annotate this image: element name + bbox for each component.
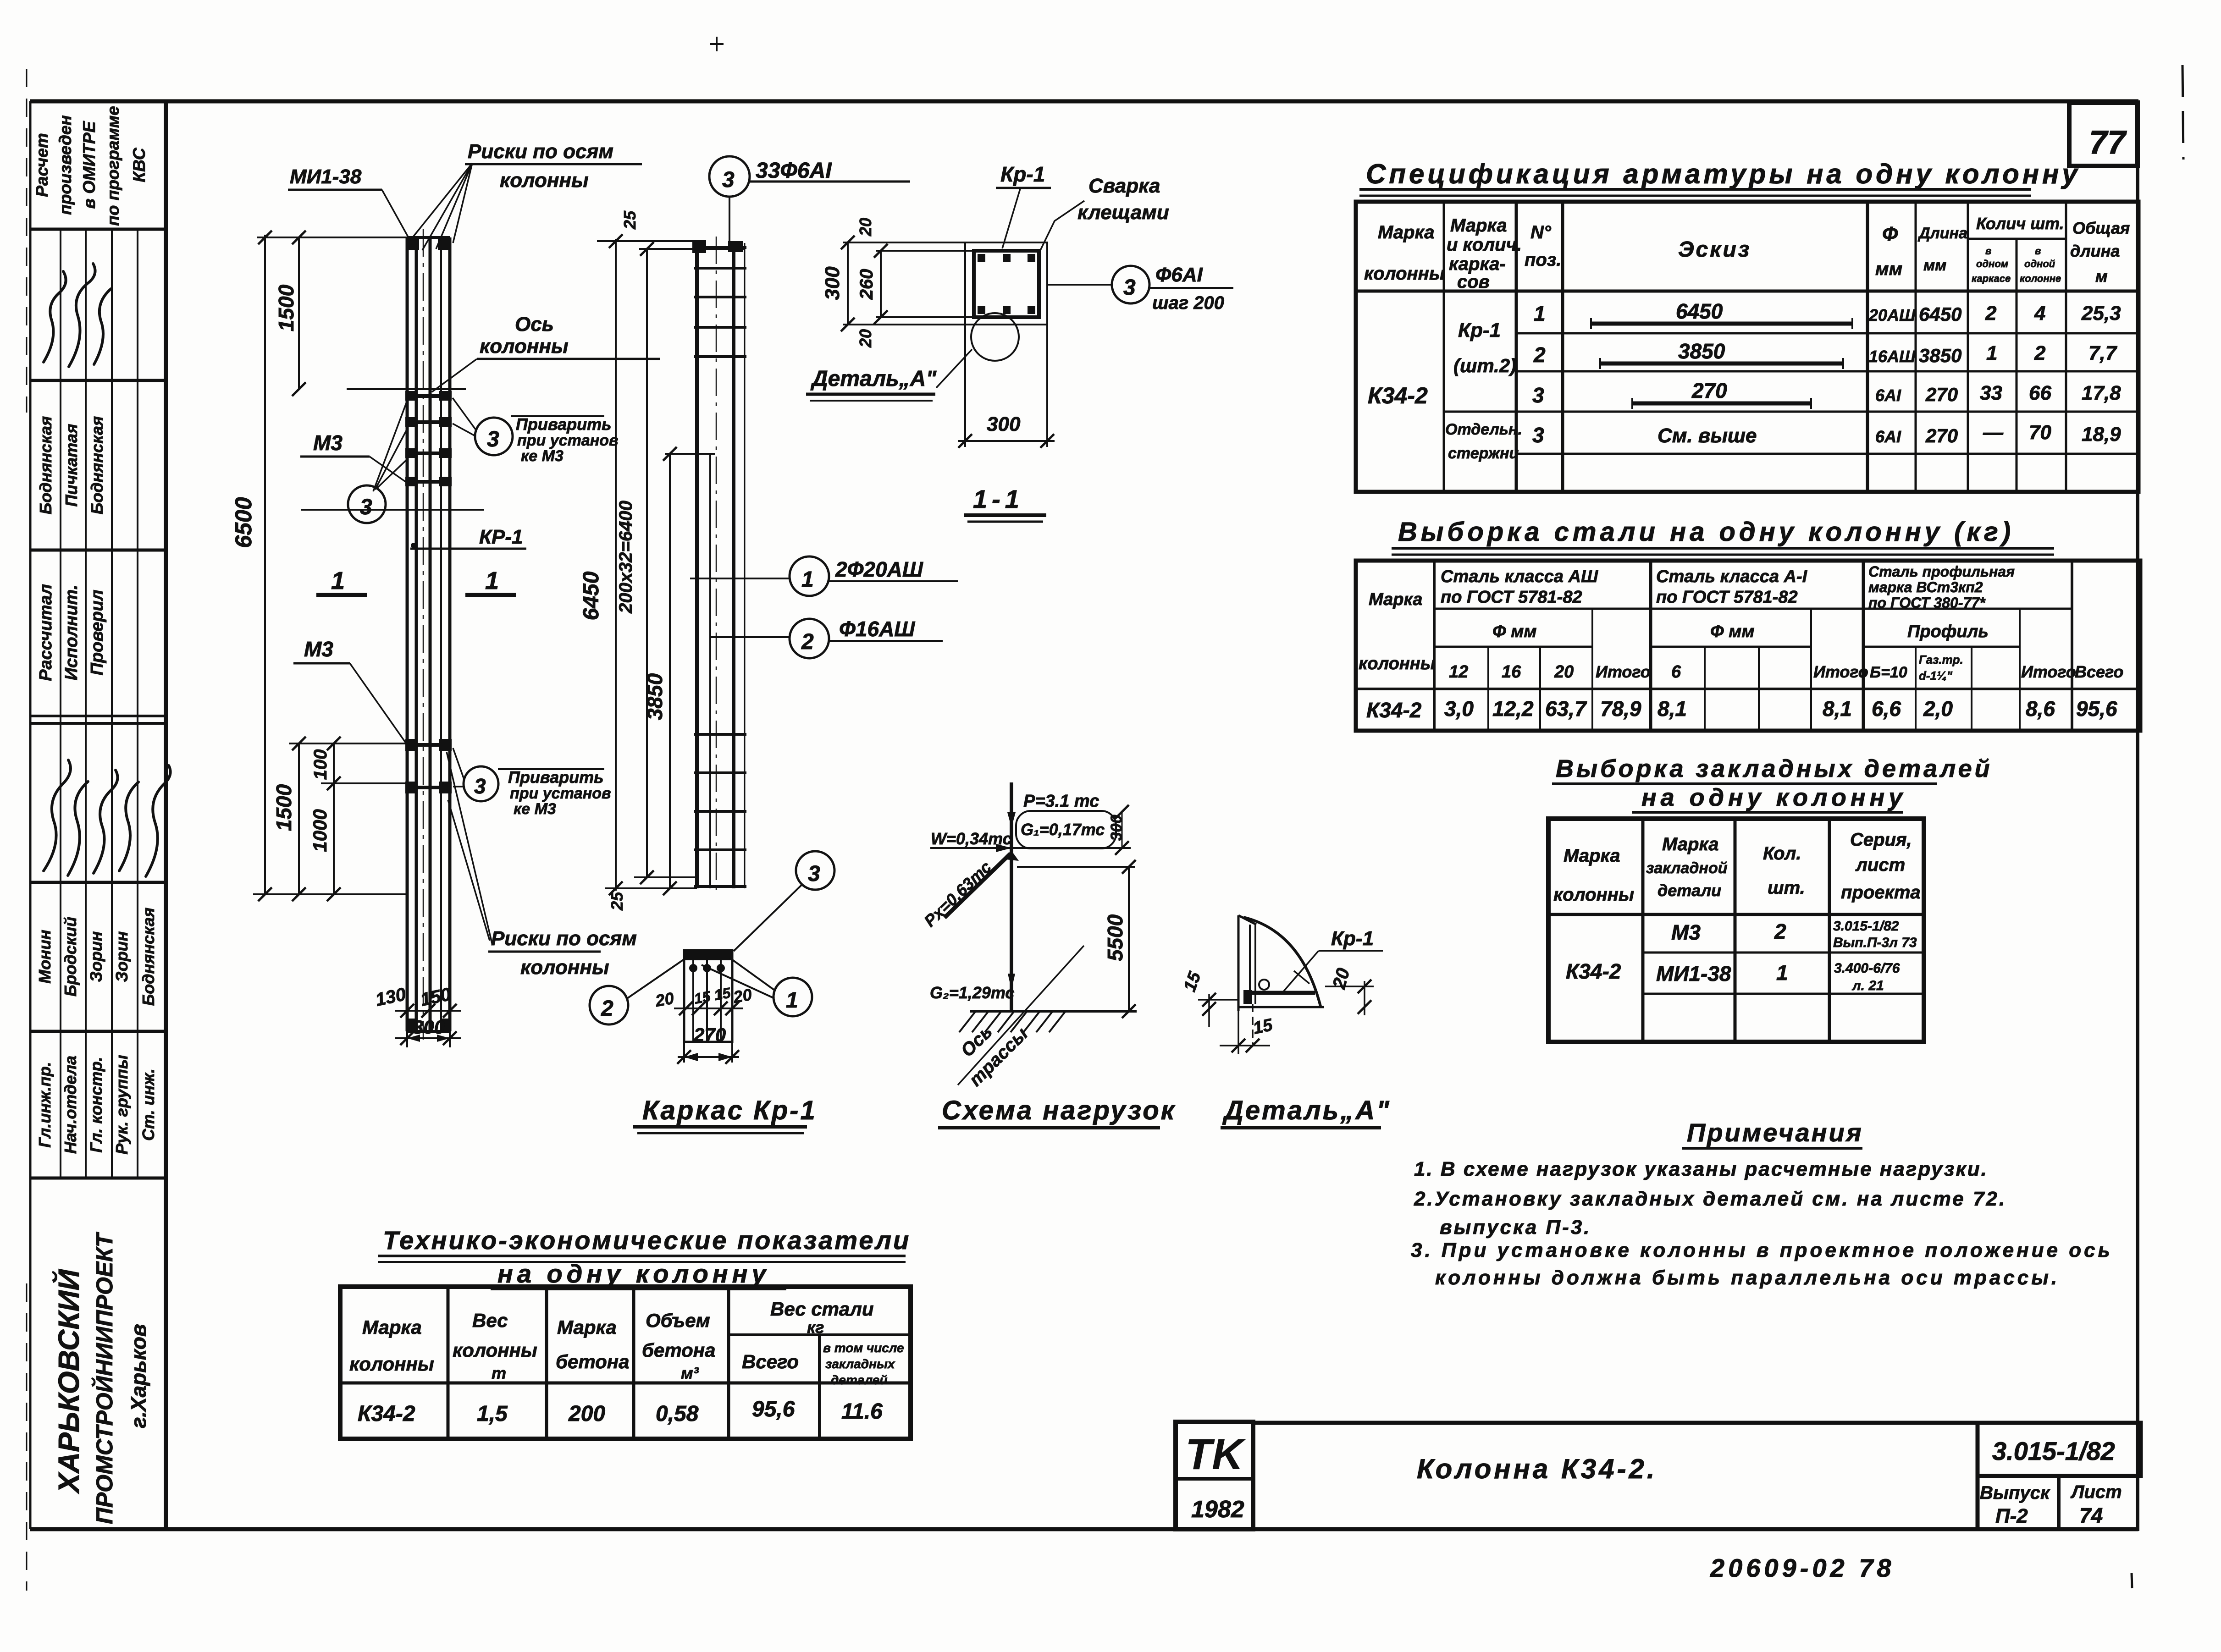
svg-text:33: 33 xyxy=(1980,382,2002,404)
svg-text:1: 1 xyxy=(1534,302,1546,325)
svg-text:270: 270 xyxy=(1925,384,1958,405)
svg-text:колонны: колонны xyxy=(349,1353,434,1375)
svg-text:марка ВСт3кп2: марка ВСт3кп2 xyxy=(1868,579,1983,595)
svg-text:Гл.инж.пр.: Гл.инж.пр. xyxy=(35,1062,54,1147)
svg-text:Общая: Общая xyxy=(2072,219,2130,237)
svg-text:95,6: 95,6 xyxy=(2076,697,2117,721)
svg-text:200х32=6400: 200х32=6400 xyxy=(616,501,636,614)
svg-text:20609-02 78: 20609-02 78 xyxy=(1710,1553,1895,1582)
svg-text:Марка: Марка xyxy=(1378,222,1435,242)
svg-text:на одну колонну: на одну колонну xyxy=(1641,784,1906,811)
svg-text:Ф мм: Ф мм xyxy=(1492,622,1536,641)
svg-text:Риски по осям: Риски по осям xyxy=(491,927,637,950)
svg-text:Боднянская: Боднянская xyxy=(88,416,106,514)
svg-text:300: 300 xyxy=(413,1016,445,1038)
svg-text:колонны: колонны xyxy=(453,1339,537,1361)
svg-text:по ГОСТ 380-77*: по ГОСТ 380-77* xyxy=(1868,595,1986,611)
svg-text:1982: 1982 xyxy=(1191,1496,1244,1523)
svg-text:Ст. инж.: Ст. инж. xyxy=(139,1068,158,1141)
svg-text:Приварить: Приварить xyxy=(516,415,612,434)
svg-text:проекта: проекта xyxy=(1841,882,1921,903)
svg-text:Лист: Лист xyxy=(2070,1482,2122,1502)
svg-text:каркасе: каркасе xyxy=(1972,273,2011,284)
svg-text:3.015-1/82: 3.015-1/82 xyxy=(1833,919,1899,934)
svg-text:2,0: 2,0 xyxy=(1923,697,1953,721)
svg-text:Примечания: Примечания xyxy=(1687,1118,1863,1147)
svg-text:сов: сов xyxy=(1457,272,1490,292)
svg-text:N°: N° xyxy=(1530,222,1552,242)
svg-text:3: 3 xyxy=(808,862,820,886)
svg-text:Выпуск: Выпуск xyxy=(1980,1483,2050,1503)
svg-text:Ф: Ф xyxy=(1882,223,1898,245)
svg-text:3,0: 3,0 xyxy=(1444,697,1474,721)
svg-text:25,3: 25,3 xyxy=(2081,302,2121,325)
svg-text:100: 100 xyxy=(310,749,331,780)
svg-text:3: 3 xyxy=(1532,383,1544,407)
svg-text:5500: 5500 xyxy=(1103,914,1127,961)
svg-text:Эскиз: Эскиз xyxy=(1678,237,1751,262)
svg-text:колонны должна быть параллельн: колонны должна быть параллельна оси трас… xyxy=(1435,1267,2060,1289)
svg-text:8,1: 8,1 xyxy=(1823,697,1852,721)
svg-text:6: 6 xyxy=(1671,662,1681,682)
svg-text:Ф16АШ: Ф16АШ xyxy=(839,617,915,641)
svg-text:Колонна К34-2.: Колонна К34-2. xyxy=(1417,1454,1657,1484)
svg-text:Итого: Итого xyxy=(1813,662,1868,681)
svg-text:детали: детали xyxy=(1657,881,1721,900)
svg-text:Марка: Марка xyxy=(1450,215,1507,236)
svg-text:м: м xyxy=(2095,267,2108,286)
svg-text:Марка: Марка xyxy=(1369,590,1422,609)
svg-text:КР-1: КР-1 xyxy=(479,526,523,548)
svg-text:Сталь класса АШ: Сталь класса АШ xyxy=(1441,567,1598,586)
svg-text:мм: мм xyxy=(1923,257,1946,274)
svg-text:деталей: деталей xyxy=(831,1373,887,1387)
svg-text:на одну колонну: на одну колонну xyxy=(497,1259,770,1288)
svg-text:колонне: колонне xyxy=(2020,273,2061,284)
svg-text:8,1: 8,1 xyxy=(1657,697,1687,721)
svg-text:бетона: бетона xyxy=(556,1351,630,1372)
svg-text:КВС: КВС xyxy=(130,147,149,182)
svg-text:шаг 200: шаг 200 xyxy=(1152,293,1224,313)
svg-text:Деталь„А": Деталь„А" xyxy=(810,367,937,391)
svg-text:колонны: колонны xyxy=(1364,264,1445,284)
svg-text:Вес стали: Вес стали xyxy=(770,1298,874,1320)
svg-text:Сталь класса А-I: Сталь класса А-I xyxy=(1656,567,1808,586)
svg-text:колонны: колонны xyxy=(500,169,589,192)
svg-text:клещами: клещами xyxy=(1077,201,1169,224)
svg-text:в ОМИТРЕ: в ОМИТРЕ xyxy=(80,121,99,209)
svg-text:270: 270 xyxy=(693,1024,726,1046)
svg-text:2: 2 xyxy=(1533,343,1546,367)
svg-text:бетона: бетона xyxy=(642,1339,716,1361)
svg-text:Приварить: Приварить xyxy=(508,768,604,787)
svg-text:г.Харьков: г.Харьков xyxy=(127,1324,150,1428)
svg-text:Вес: Вес xyxy=(472,1310,508,1331)
svg-text:Проверил: Проверил xyxy=(88,590,107,676)
svg-text:Пичкатая: Пичкатая xyxy=(62,424,81,507)
svg-text:Отдельн.: Отдельн. xyxy=(1445,421,1522,438)
svg-text:колонны: колонны xyxy=(480,335,569,358)
svg-text:3.400-6/76: 3.400-6/76 xyxy=(1834,961,1900,976)
svg-text:2: 2 xyxy=(801,630,814,654)
svg-text:Итого: Итого xyxy=(1596,662,1651,681)
svg-text:Каркас Кр-1: Каркас Кр-1 xyxy=(642,1096,817,1125)
svg-text:произведен: произведен xyxy=(56,115,75,215)
svg-text:6450: 6450 xyxy=(1676,299,1723,323)
svg-text:в: в xyxy=(2035,245,2041,257)
svg-text:66: 66 xyxy=(2029,382,2051,404)
svg-text:по ГОСТ 5781-82: по ГОСТ 5781-82 xyxy=(1441,588,1582,607)
svg-text:лист: лист xyxy=(1855,855,1905,875)
svg-text:1-1: 1-1 xyxy=(973,485,1024,513)
svg-text:См. выше: См. выше xyxy=(1657,424,1757,447)
svg-text:7,7: 7,7 xyxy=(2088,342,2118,364)
svg-text:Зорин: Зорин xyxy=(87,931,105,982)
svg-text:12,2: 12,2 xyxy=(1492,697,1534,721)
svg-text:Деталь„А": Деталь„А" xyxy=(1222,1096,1391,1125)
svg-text:16АШ: 16АШ xyxy=(1869,347,1916,366)
svg-text:К34-2: К34-2 xyxy=(358,1402,415,1426)
svg-text:л. 21: л. 21 xyxy=(1851,978,1884,993)
svg-text:одном: одном xyxy=(1976,258,2008,270)
svg-text:Сварка: Сварка xyxy=(1088,175,1160,197)
svg-text:Спецификация арматуры на од: Спецификация арматуры на одну колонну xyxy=(1366,159,2081,189)
svg-text:2Ф20АШ: 2Ф20АШ xyxy=(835,557,923,581)
svg-text:16: 16 xyxy=(1502,662,1521,682)
svg-text:ке М3: ке М3 xyxy=(521,447,564,465)
svg-text:Выборка закладных деталей: Выборка закладных деталей xyxy=(1556,755,1993,782)
svg-text:М3: М3 xyxy=(304,637,333,661)
svg-text:поз.: поз. xyxy=(1525,250,1561,270)
svg-text:3: 3 xyxy=(487,427,499,452)
svg-text:М3: М3 xyxy=(1671,920,1701,944)
svg-text:Гл. констр.: Гл. констр. xyxy=(87,1057,105,1152)
svg-text:Сталь профильная: Сталь профильная xyxy=(1868,563,2015,580)
svg-text:4: 4 xyxy=(2034,302,2045,325)
svg-text:70: 70 xyxy=(2029,421,2051,444)
svg-text:Марка: Марка xyxy=(557,1316,617,1338)
svg-text:Расчет: Расчет xyxy=(33,133,51,197)
svg-text:1: 1 xyxy=(1986,342,1997,364)
svg-text:Бродский: Бродский xyxy=(61,917,80,997)
svg-text:270: 270 xyxy=(1691,379,1727,402)
svg-text:—: — xyxy=(1983,421,2004,444)
svg-text:одной: одной xyxy=(2024,258,2055,270)
svg-text:колонны: колонны xyxy=(1359,654,1435,673)
svg-text:1: 1 xyxy=(1776,961,1788,985)
svg-text:длина: длина xyxy=(2070,242,2120,260)
svg-text:3850: 3850 xyxy=(1919,345,1961,366)
svg-text:300: 300 xyxy=(821,266,844,300)
svg-text:78,9: 78,9 xyxy=(1600,697,1641,721)
svg-text:1: 1 xyxy=(786,988,798,1013)
svg-text:стержни: стержни xyxy=(1448,445,1519,462)
svg-text:Всего: Всего xyxy=(742,1351,799,1372)
svg-text:2: 2 xyxy=(601,997,613,1021)
svg-text:12: 12 xyxy=(1449,662,1468,682)
svg-text:6АI: 6АI xyxy=(1875,427,1901,446)
svg-text:при установ: при установ xyxy=(517,432,619,449)
svg-text:Всего: Всего xyxy=(2075,662,2123,681)
svg-text:0,58: 0,58 xyxy=(656,1402,699,1426)
svg-text:т: т xyxy=(492,1364,506,1382)
svg-text:ке М3: ке М3 xyxy=(514,800,556,818)
svg-text:1: 1 xyxy=(485,567,499,595)
svg-text:(шт.2): (шт.2) xyxy=(1453,355,1516,376)
svg-text:Марка: Марка xyxy=(1564,846,1620,866)
svg-text:при установ: при установ xyxy=(510,785,611,802)
svg-text:в: в xyxy=(1985,245,1991,257)
svg-text:Кр-1: Кр-1 xyxy=(1458,319,1501,341)
svg-text:W=0,34тс: W=0,34тс xyxy=(931,829,1012,848)
svg-text:200: 200 xyxy=(568,1402,605,1426)
svg-text:20: 20 xyxy=(856,329,875,348)
svg-text:колонны: колонны xyxy=(1553,885,1634,905)
svg-text:G₁=0,17тс: G₁=0,17тс xyxy=(1021,820,1105,839)
svg-text:в том числе: в том числе xyxy=(823,1341,904,1355)
svg-text:Рассчитал: Рассчитал xyxy=(36,584,55,681)
svg-text:3: 3 xyxy=(722,168,735,192)
svg-text:74: 74 xyxy=(2079,1503,2103,1527)
svg-text:М3: М3 xyxy=(313,431,343,455)
svg-text:ХАРЬКОВСКИЙ: ХАРЬКОВСКИЙ xyxy=(51,1268,85,1494)
svg-text:1500: 1500 xyxy=(272,784,296,831)
svg-text:карка-: карка- xyxy=(1449,254,1506,274)
svg-text:Ф6АI: Ф6АI xyxy=(1155,264,1203,286)
svg-text:по ГОСТ 5781-82: по ГОСТ 5781-82 xyxy=(1656,588,1798,607)
svg-text:1: 1 xyxy=(331,567,345,595)
svg-text:ПРОМСТРОЙНИИПРОЕКТ: ПРОМСТРОЙНИИПРОЕКТ xyxy=(91,1231,117,1524)
svg-text:П-2: П-2 xyxy=(1995,1505,2028,1527)
svg-text:Кол.: Кол. xyxy=(1763,843,1801,864)
svg-text:закладных: закладных xyxy=(825,1357,895,1371)
svg-text:Боднянская: Боднянская xyxy=(36,416,55,514)
svg-text:Зорин: Зорин xyxy=(112,931,131,982)
svg-text:20: 20 xyxy=(1554,662,1574,682)
svg-text:2: 2 xyxy=(1985,302,1997,325)
svg-text:1,5: 1,5 xyxy=(477,1402,508,1426)
svg-text:d-1¼": d-1¼" xyxy=(1919,669,1953,683)
svg-text:20АШ: 20АШ xyxy=(1868,306,1916,325)
svg-text:6500: 6500 xyxy=(231,497,256,548)
svg-text:кг: кг xyxy=(807,1318,824,1337)
svg-text:Ф мм: Ф мм xyxy=(1710,622,1754,641)
svg-text:Марка: Марка xyxy=(1662,834,1719,854)
svg-text:Газ.тр.: Газ.тр. xyxy=(1919,653,1963,666)
svg-text:300: 300 xyxy=(1108,815,1125,841)
svg-text:Технико-экономические показате: Технико-экономические показатели xyxy=(383,1226,911,1255)
svg-text:МИ1-38: МИ1-38 xyxy=(290,165,362,188)
svg-text:20: 20 xyxy=(856,218,875,237)
svg-text:3.015-1/82: 3.015-1/82 xyxy=(1992,1437,2115,1465)
svg-text:Монин: Монин xyxy=(35,930,54,984)
svg-text:3850: 3850 xyxy=(643,673,667,720)
svg-text:TK: TK xyxy=(1185,1430,1246,1479)
svg-text:3: 3 xyxy=(1123,275,1136,300)
svg-text:колонны: колонны xyxy=(520,956,609,979)
svg-text:Выборка стали на одну колонну: Выборка стали на одну колонну (кг) xyxy=(1398,517,2014,547)
svg-text:3: 3 xyxy=(360,495,372,519)
svg-text:закладной: закладной xyxy=(1646,859,1728,877)
svg-text:К34-2: К34-2 xyxy=(1366,698,1422,722)
svg-text:77: 77 xyxy=(2089,124,2127,161)
svg-text:м³: м³ xyxy=(681,1364,699,1382)
svg-text:25: 25 xyxy=(608,892,626,911)
svg-text:шт.: шт. xyxy=(1768,878,1805,898)
svg-text:25: 25 xyxy=(620,210,639,230)
svg-text:11.6: 11.6 xyxy=(841,1399,883,1424)
svg-text:Вып.П-3л 73: Вып.П-3л 73 xyxy=(1833,935,1917,950)
svg-text:3. При установке колонны в про: 3. При установке колонны в проектное пол… xyxy=(1411,1239,2113,1261)
svg-text:Колич шт.: Колич шт. xyxy=(1976,214,2064,233)
svg-text:Длина: Длина xyxy=(1917,225,1967,242)
svg-text:95,6: 95,6 xyxy=(752,1397,795,1421)
svg-text:17,8: 17,8 xyxy=(2082,382,2121,404)
svg-text:МИ1-38: МИ1-38 xyxy=(1656,962,1731,986)
svg-text:Профиль: Профиль xyxy=(1907,622,1989,641)
svg-text:Б=10: Б=10 xyxy=(1870,664,1907,681)
svg-text:Риски по осям: Риски по осям xyxy=(468,140,613,163)
svg-text:2.Установку закладных деталей: 2.Установку закладных деталей см. на лис… xyxy=(1414,1188,2006,1210)
svg-text:1: 1 xyxy=(801,567,814,592)
svg-text:3: 3 xyxy=(1532,423,1544,447)
svg-text:выпуска П-3.: выпуска П-3. xyxy=(1440,1216,1591,1239)
svg-text:270: 270 xyxy=(1925,425,1958,446)
svg-text:6450: 6450 xyxy=(579,571,603,620)
svg-text:2: 2 xyxy=(2034,342,2046,364)
svg-text:1. В схеме нагрузок указаны ра: 1. В схеме нагрузок указаны расчетные на… xyxy=(1414,1158,1988,1180)
svg-text:и колич.: и колич. xyxy=(1447,235,1522,255)
svg-text:Кр-1: Кр-1 xyxy=(1331,927,1374,950)
svg-text:6450: 6450 xyxy=(1919,303,1961,325)
svg-text:Схема нагрузок: Схема нагрузок xyxy=(942,1096,1176,1125)
svg-text:Рук. группы: Рук. группы xyxy=(112,1055,131,1155)
svg-text:Нач.отдела: Нач.отдела xyxy=(61,1056,80,1154)
svg-text:К34-2: К34-2 xyxy=(1368,383,1428,408)
svg-text:6АI: 6АI xyxy=(1875,386,1901,405)
svg-text:260: 260 xyxy=(856,269,877,300)
svg-text:Итого: Итого xyxy=(2021,662,2076,681)
svg-text:2: 2 xyxy=(1774,920,1786,943)
svg-text:63,7: 63,7 xyxy=(1545,697,1587,721)
svg-text:Кр-1: Кр-1 xyxy=(1000,162,1045,186)
svg-text:Исполнит.: Исполнит. xyxy=(62,585,81,681)
svg-text:Марка: Марка xyxy=(362,1316,422,1338)
svg-text:1000: 1000 xyxy=(309,809,331,852)
svg-text:20: 20 xyxy=(653,989,675,1011)
svg-text:Объем: Объем xyxy=(646,1310,710,1331)
svg-text:33Ф6АI: 33Ф6АI xyxy=(756,159,832,183)
svg-text:6,6: 6,6 xyxy=(1872,697,1901,721)
svg-text:по программе: по программе xyxy=(104,106,122,226)
svg-text:300: 300 xyxy=(987,413,1021,435)
svg-text:P=3.1 тс: P=3.1 тс xyxy=(1023,792,1099,811)
svg-text:Ось: Ось xyxy=(515,313,554,336)
svg-text:Серия,: Серия, xyxy=(1850,830,1912,850)
svg-text:8,6: 8,6 xyxy=(2026,697,2055,721)
svg-text:Боднянская: Боднянская xyxy=(139,908,158,1006)
svg-text:3850: 3850 xyxy=(1678,339,1725,363)
svg-text:3: 3 xyxy=(474,774,486,798)
svg-text:G₂=1,29тс: G₂=1,29тс xyxy=(930,983,1014,1002)
svg-text:К34-2: К34-2 xyxy=(1566,959,1621,983)
svg-text:18,9: 18,9 xyxy=(2082,423,2121,446)
svg-text:мм: мм xyxy=(1875,259,1902,279)
svg-text:1500: 1500 xyxy=(274,284,298,331)
